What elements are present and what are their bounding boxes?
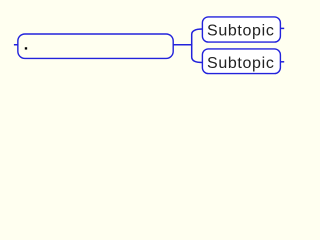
node: top subtopic box	[202, 17, 280, 42]
wire: fork upper branch	[192, 29, 203, 45]
node text: root "."	[25, 47, 27, 49]
wire: bottom subtopic right stub	[280, 61, 284, 63]
wire: trunk from root to fork	[173, 44, 192, 46]
wire: top subtopic right stub	[280, 27, 284, 29]
svg-text:Subtopic: Subtopic	[207, 22, 274, 39]
wire: left stub of root node	[14, 44, 18, 46]
node: bottom subtopic box	[202, 49, 280, 74]
svg-text:Subtopic: Subtopic	[207, 55, 274, 72]
wire: fork lower branch	[192, 44, 203, 63]
node: root box	[18, 34, 173, 58]
